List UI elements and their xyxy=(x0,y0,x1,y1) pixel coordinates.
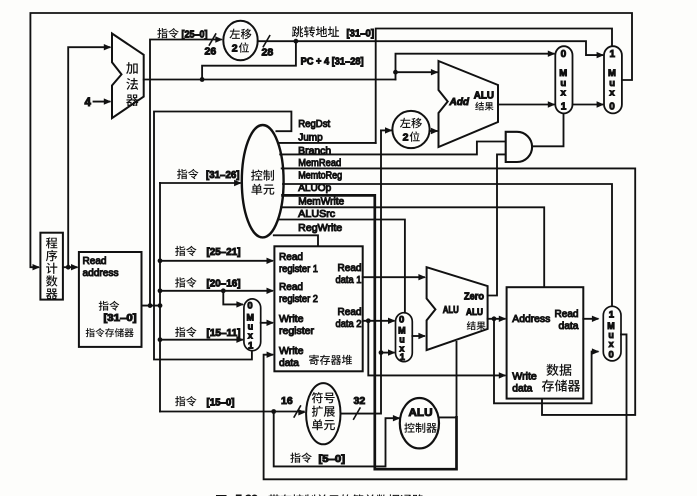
control signal RegWrite xyxy=(274,223,343,246)
wire read data 2 to data memory write data xyxy=(368,321,506,379)
label 指令 [31-26] xyxy=(177,169,240,181)
svg-text:x: x xyxy=(609,339,614,349)
svg-text:ALUOp: ALUOp xyxy=(298,183,331,194)
wire read data to mux M5 xyxy=(583,316,599,322)
wire read data 2 to ALU mux xyxy=(363,318,396,324)
svg-text:ALU: ALU xyxy=(409,407,433,419)
svg-text:x: x xyxy=(561,88,567,99)
data memory (数据存储器) xyxy=(507,287,584,398)
svg-text:x: x xyxy=(609,88,615,99)
label bit width 28 xyxy=(262,47,274,59)
svg-text:Jump: Jump xyxy=(298,133,323,144)
svg-text:MemtoReg: MemtoReg xyxy=(298,170,342,181)
svg-text:Read: Read xyxy=(279,282,303,293)
and-gate branch xyxy=(506,132,532,162)
svg-text:16: 16 xyxy=(281,395,293,407)
control signal Branch xyxy=(280,142,505,157)
mux M2 (Jump) xyxy=(604,46,622,113)
label PC + 4 [31-28] xyxy=(301,57,364,68)
svg-text:2: 2 xyxy=(232,43,238,55)
wire mux M1 to mux M2 xyxy=(573,101,605,107)
svg-text:data: data xyxy=(279,358,299,369)
label bit width 32 xyxy=(354,395,366,407)
svg-text:28: 28 xyxy=(262,47,274,59)
caption 图5-29 (clipped) xyxy=(216,494,424,496)
svg-text:Write: Write xyxy=(279,346,304,357)
wire jump select (Jump control to mux M2) xyxy=(376,29,612,143)
wire mux M5 output return to register write data xyxy=(264,334,627,479)
svg-text:ALU: ALU xyxy=(474,91,494,102)
svg-text:[31–0]: [31–0] xyxy=(104,313,137,324)
svg-text:RegWrite: RegWrite xyxy=(298,223,342,234)
svg-text:ALU: ALU xyxy=(466,307,483,317)
svg-text:Address: Address xyxy=(512,314,550,325)
svg-text:1: 1 xyxy=(400,352,406,363)
svg-text:[15–11]: [15–11] xyxy=(207,328,241,339)
svg-text:[5–0]: [5–0] xyxy=(319,454,346,465)
wire ALU result to data memory address xyxy=(488,316,507,322)
wire sign-extend to shift-left-2 xyxy=(381,127,393,133)
svg-text:[31–0]: [31–0] xyxy=(347,28,375,39)
mux M5 (MemtoReg 1/Mux/0) xyxy=(603,306,621,361)
wire shift-left-2 to branch adder xyxy=(430,128,439,134)
adder U2 branch Add xyxy=(439,61,499,147)
svg-text:0: 0 xyxy=(561,49,567,60)
svg-text:[25–0]: [25–0] xyxy=(182,29,208,40)
svg-text:26: 26 xyxy=(205,46,217,58)
svg-text:register: register xyxy=(279,326,315,337)
svg-text:x: x xyxy=(248,331,253,341)
svg-text:Read: Read xyxy=(555,309,579,320)
svg-text:Read: Read xyxy=(83,256,107,267)
svg-text:MemRead: MemRead xyxy=(298,158,341,169)
control signal MemtoReg xyxy=(283,170,612,305)
svg-text:data 2: data 2 xyxy=(336,319,362,330)
mux M3 (RegDst 0/Mux/1) xyxy=(244,299,261,352)
wire instruction [31-26] into control unit xyxy=(160,180,242,186)
label bit width 16 xyxy=(281,395,293,407)
wire sign extend to ALU mux1 xyxy=(381,349,396,355)
wire mux M3 to write register xyxy=(261,320,274,326)
instruction memory (指令存储器) xyxy=(79,252,142,347)
svg-text:PC + 4 [31–28]: PC + 4 [31–28] xyxy=(301,57,364,68)
svg-text:[20–16]: [20–16] xyxy=(207,279,241,290)
svg-text:Read: Read xyxy=(338,263,362,274)
control signal RegDst xyxy=(154,112,330,360)
svg-text:data 1: data 1 xyxy=(336,275,362,286)
svg-text:Zero: Zero xyxy=(464,291,484,302)
svg-text:Read: Read xyxy=(338,307,362,318)
wire instruction [5-0] to ALU control xyxy=(274,412,401,467)
svg-text:32: 32 xyxy=(354,395,366,407)
wire instruction bus [31-0] xyxy=(142,303,163,308)
wire PC+4[31-28] tap to jump address xyxy=(202,39,298,80)
svg-text:[25–21]: [25–21] xyxy=(207,247,241,258)
adder U1 (加法器) xyxy=(112,34,144,119)
svg-text:2: 2 xyxy=(403,132,409,144)
svg-text:0: 0 xyxy=(247,301,252,312)
wire PC+4 to mux0 and branch adder xyxy=(393,51,555,80)
register PC (程序计数器) xyxy=(40,233,63,300)
svg-text:data: data xyxy=(559,321,579,332)
mux M4 (ALUSrc 0/Mux/1) xyxy=(396,313,413,363)
svg-text:RegDst: RegDst xyxy=(298,119,330,130)
alu U3 (ALU) xyxy=(427,267,488,350)
svg-text:[15–0]: [15–0] xyxy=(207,397,235,408)
wire instruction [15-11] to mux xyxy=(160,327,244,343)
wire read data 1 to ALU xyxy=(363,274,426,280)
wire branch target to mux1 xyxy=(498,101,555,107)
wire PC+4 (adder output) xyxy=(144,77,396,82)
register file (寄存器堆) xyxy=(274,246,362,371)
wire instruction [15-0] to sign extend xyxy=(160,396,306,417)
svg-text:[31–26]: [31–26] xyxy=(206,170,240,181)
svg-text:4: 4 xyxy=(85,97,92,109)
wire PC output to instruction memory xyxy=(63,264,79,270)
svg-text:1: 1 xyxy=(609,309,615,320)
wire ALU result bypass to mux M5 xyxy=(494,319,599,404)
svg-text:Read: Read xyxy=(279,252,303,263)
sign extend unit (符号扩展单元) xyxy=(306,383,340,444)
shifter shift-left-2 (左移2位) branch xyxy=(392,111,429,148)
svg-text:ALU: ALU xyxy=(443,305,459,316)
constant 4 input to adder xyxy=(85,97,112,109)
control signal ALUOp (2-bit, thick) xyxy=(283,183,457,469)
wire jump address [31-0] to jump mux xyxy=(258,36,604,59)
svg-text:Branch: Branch xyxy=(298,146,331,157)
control signal ALUSrc xyxy=(278,209,405,313)
mux M1 (PCSrc) xyxy=(555,46,572,113)
svg-text:register 2: register 2 xyxy=(279,294,318,305)
svg-text:0: 0 xyxy=(609,350,614,361)
wire ALU control to ALU xyxy=(440,342,457,418)
svg-text:data: data xyxy=(512,383,532,394)
svg-text:0: 0 xyxy=(609,102,615,113)
svg-text:Add: Add xyxy=(449,97,470,108)
svg-text:address: address xyxy=(83,268,119,279)
control unit (控制单元) xyxy=(242,125,284,237)
wire instruction [25-21] to read register 1 xyxy=(160,246,274,264)
control signal MemRead xyxy=(282,158,636,415)
svg-text:0: 0 xyxy=(399,314,404,325)
svg-text:Write: Write xyxy=(279,314,304,325)
shifter shift-left-2 (左移2位) top xyxy=(223,21,257,61)
wire PC feedback (mux output around top to PC) xyxy=(30,13,632,270)
svg-text:1: 1 xyxy=(610,49,616,60)
wire Zero to and-gate xyxy=(488,154,506,295)
control signal Jump xyxy=(278,133,376,144)
svg-text:ALUSrc: ALUSrc xyxy=(298,209,335,220)
wire mux M4 to ALU xyxy=(412,333,426,339)
wire sign extend output (32) riser xyxy=(340,130,383,419)
svg-text:register 1: register 1 xyxy=(279,264,318,275)
wire and-gate output to mux M1 select xyxy=(532,114,563,146)
wire instruction [25-0] to shift-left-2 xyxy=(148,34,223,308)
label bit width 26 xyxy=(205,46,217,58)
wire instruction [20-16] to read register 2 and mux xyxy=(160,277,274,307)
svg-text:MemWrite: MemWrite xyxy=(298,197,344,208)
label 指令 [25-0] xyxy=(157,28,207,40)
alu control unit (ALU控制器) xyxy=(400,398,439,448)
wire instruction field vertical bus xyxy=(158,183,163,412)
svg-text:Write: Write xyxy=(512,371,537,382)
svg-text:1: 1 xyxy=(248,341,254,352)
svg-text:1: 1 xyxy=(561,102,567,113)
wire PC to adder input xyxy=(68,44,111,267)
control signal MemWrite xyxy=(281,197,544,287)
label 跳转地址 [31-0] xyxy=(292,26,374,39)
